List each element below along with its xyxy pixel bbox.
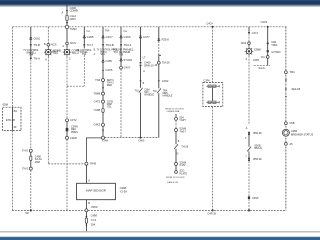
- svg-text:FROM 15 1V DOOR: FROM 15 1V DOOR: [166, 177, 185, 179]
- connector C4D8: [66, 136, 69, 139]
- wire down to resistor box: [212, 27, 214, 83]
- module box dashed: [3, 107, 21, 130]
- connector C465: [83, 35, 85, 38]
- svg-text:C4K2: C4K2: [93, 123, 100, 127]
- svg-text:C477: C477: [143, 35, 150, 39]
- svg-text:RED: RED: [107, 84, 112, 87]
- svg-text:YGP7: YGP7: [179, 119, 186, 122]
- connector C471: [248, 32, 250, 34]
- connector TM-26: [157, 61, 160, 64]
- wire: [140, 66, 142, 80]
- inline fuse 30A: [85, 218, 87, 223]
- connector C200: [66, 10, 68, 12]
- wire with arrow: [102, 126, 104, 136]
- connector C4T5: [102, 100, 105, 103]
- svg-text:TN4-B: TN4-B: [106, 43, 114, 47]
- wire: [66, 122, 68, 137]
- svg-text:YC88: YC88: [93, 108, 100, 112]
- svg-text:ORN: ORN: [70, 17, 76, 21]
- wire to bottom bus: [30, 170, 32, 210]
- wire below module: [12, 131, 14, 211]
- inline connector block: [248, 196, 250, 199]
- svg-text:LT: LT: [143, 57, 146, 60]
- svg-text:MAP SENSOR: MAP SENSOR: [86, 189, 107, 193]
- connector TN4B: [102, 92, 105, 95]
- resistor module box dashed: [203, 83, 223, 107]
- junction dot bottom: [212, 209, 214, 211]
- tap stub: [159, 54, 161, 57]
- wire: [175, 132, 177, 145]
- svg-text:SE2-1B: SE2-1B: [292, 88, 301, 91]
- module internal wire: [12, 107, 14, 130]
- svg-text:TN3-4: TN3-4: [124, 43, 132, 47]
- wire down to branch: [83, 38, 85, 44]
- splice dots on right column: [285, 79, 287, 81]
- wire: [102, 103, 104, 108]
- connector YR45: [85, 162, 88, 165]
- connector S04: [175, 117, 178, 120]
- svg-text:D: D: [177, 153, 179, 156]
- wire: [102, 71, 104, 79]
- wire down to corner: [47, 57, 49, 164]
- connector STUD4: [120, 58, 122, 61]
- wire column I/P: [120, 27, 122, 36]
- svg-text:C4D8: C4D8: [70, 136, 77, 140]
- svg-text:M32: M32: [241, 41, 247, 45]
- svg-text:C4C4: C4C4: [206, 22, 213, 25]
- wire: [158, 41, 160, 54]
- wire: [30, 152, 32, 167]
- svg-text:YR60: YR60: [91, 205, 98, 209]
- wire: [102, 38, 104, 44]
- wire: [102, 62, 104, 69]
- wire: [248, 135, 250, 146]
- svg-text:C4X7: C4X7: [124, 66, 131, 70]
- jog wire left then down: [86, 138, 101, 162]
- svg-text:C498: C498: [120, 186, 127, 190]
- wire: [267, 52, 269, 55]
- connector M32: [248, 42, 251, 45]
- connector C4T2: [66, 119, 69, 122]
- svg-text:CURELE 5MA: CURELE 5MA: [166, 110, 179, 113]
- splice C4C5: [102, 69, 104, 71]
- connector C4K2: [102, 123, 105, 126]
- wire down: [248, 56, 250, 125]
- svg-text:MAP: MAP: [35, 161, 41, 164]
- svg-text:C4R-35: C4R-35: [207, 213, 216, 216]
- svg-text:TM23: TM23: [70, 27, 77, 31]
- wire down: [248, 161, 250, 196]
- wire below MAP: [85, 200, 87, 209]
- connector C4X7: [120, 66, 123, 69]
- svg-text:CN: CN: [261, 56, 265, 59]
- svg-text:YEL: YEL: [107, 106, 112, 109]
- top dashed bus wire: [13, 26, 66, 28]
- junction dot left: [30, 209, 32, 211]
- circuit breaker double circle: [282, 129, 289, 136]
- svg-text:A5: A5: [289, 142, 293, 146]
- lamp bulb dome: [245, 47, 254, 56]
- inline resistor block: [66, 128, 69, 131]
- connector TN-5 lower: [29, 167, 32, 170]
- wire: [158, 64, 160, 80]
- junction dot: [140, 137, 142, 139]
- svg-text:C498: C498: [91, 214, 98, 218]
- wire to switch: [140, 82, 142, 88]
- junction splice to branch: [66, 86, 68, 119]
- wire column lamp 1: [47, 27, 49, 44]
- wire to branch: [267, 58, 269, 65]
- svg-text:PRES: PRES: [71, 131, 78, 134]
- node TM23 on bus: [65, 25, 68, 28]
- svg-text:TN4: TN4: [95, 78, 101, 82]
- wire to collector corner: [158, 93, 160, 137]
- wire main column: [66, 29, 68, 42]
- inline block C2TN2C: [267, 50, 269, 52]
- svg-text:C4C5: C4C5: [106, 68, 113, 72]
- svg-text:4F: 4F: [14, 125, 17, 129]
- svg-text:ETR-1B: ETR-1B: [6, 119, 15, 122]
- svg-text:PLATE: PLATE: [179, 172, 187, 175]
- connector TM4: [285, 71, 288, 74]
- wire to switch 2: [158, 82, 160, 89]
- wire main feed from top: [66, 5, 68, 26]
- svg-text:BREAKER STATUS: BREAKER STATUS: [291, 134, 313, 137]
- splice TN3-4: [120, 44, 122, 46]
- svg-text:C4K5: C4K5: [138, 140, 145, 143]
- wire down to bottom bus: [212, 107, 214, 211]
- svg-text:SunG: SunG: [258, 67, 264, 70]
- svg-text:EAGLE OM: EAGLE OM: [167, 181, 178, 184]
- connector NCS 2: [66, 42, 69, 45]
- svg-text:C452: C452: [162, 79, 169, 83]
- wire down: [30, 40, 32, 44]
- svg-text:C601: C601: [33, 36, 40, 40]
- svg-text:C2TN2C: C2TN2C: [271, 51, 281, 54]
- svg-text:TN-7: TN-7: [87, 43, 94, 47]
- svg-text:TIL/: TIL/: [153, 90, 158, 93]
- svg-text:TN-5: TN-5: [22, 167, 28, 171]
- dashed jumper wire to MAP drop: [48, 163, 85, 165]
- connector C601: [30, 37, 32, 40]
- svg-text:B50-3c: B50-3c: [254, 147, 263, 150]
- wire to bottom bus: [248, 199, 250, 210]
- inline fuse YC88: [102, 108, 104, 112]
- svg-text:NE-1: NE-1: [53, 50, 59, 53]
- lamp bulb comb: [44, 48, 53, 57]
- wire down: [66, 57, 68, 87]
- svg-text:NCS: NCS: [51, 43, 57, 47]
- svg-text:A: A: [61, 10, 63, 14]
- svg-text:DRN-10: DRN-10: [144, 63, 154, 67]
- svg-text:C4K5: C4K5: [124, 35, 131, 39]
- connector pair B50 lower: [248, 151, 250, 157]
- wire column heater sw: [140, 27, 142, 36]
- splice C2R: [267, 42, 269, 44]
- MAP sensor box: [77, 183, 116, 199]
- svg-text:TN4: TN4: [105, 30, 110, 33]
- wire stub from bus: [248, 27, 250, 32]
- wire column to module: [12, 27, 14, 107]
- svg-text:Y2-3A: Y2-3A: [120, 189, 128, 193]
- splice TN-7: [83, 44, 85, 46]
- wire: [248, 34, 250, 42]
- junction splice: [140, 80, 142, 82]
- connector C4C7: [102, 35, 104, 38]
- switch blade: [247, 147, 251, 152]
- wire column AC mode: [102, 27, 104, 36]
- svg-text:NCS: NCS: [70, 41, 76, 45]
- svg-text:SDM: SDM: [2, 103, 8, 107]
- connector R25-8: [158, 38, 160, 41]
- wire with pin ticks: [102, 82, 104, 93]
- wire: [267, 45, 269, 51]
- resistor element upper: [206, 85, 219, 87]
- wire: [120, 38, 122, 44]
- connector A5: [285, 143, 288, 146]
- wire: [102, 95, 104, 100]
- wire column mix sw: [158, 27, 160, 38]
- connector Y24A: [102, 136, 105, 139]
- junction dot: [248, 209, 250, 211]
- svg-text:C4C9: C4C9: [261, 21, 268, 24]
- svg-text:YR45: YR45: [89, 162, 96, 166]
- bottom dashed bus wire: [12, 209, 85, 211]
- inline fuse symbol: [30, 156, 32, 161]
- module internal wire: [212, 87, 214, 101]
- svg-text:B: B: [44, 42, 46, 46]
- wire: [102, 112, 104, 123]
- wire down: [267, 27, 269, 42]
- wire column C465: [83, 27, 85, 36]
- connector C477: [139, 35, 141, 38]
- svg-text:TM-26: TM-26: [162, 61, 170, 65]
- wire to collector: [120, 69, 122, 138]
- splice TN-B: [30, 44, 32, 46]
- svg-text:TM4: TM4: [289, 70, 295, 74]
- svg-text:TH-26: TH-26: [181, 146, 189, 149]
- svg-text:30A: 30A: [91, 223, 96, 227]
- svg-text:C2P4: C2P4: [203, 79, 210, 82]
- wire: [140, 38, 142, 61]
- bottom banner bar: [0, 237, 320, 240]
- svg-text:TN-5: TN-5: [22, 149, 28, 153]
- svg-text:C4C7: C4C7: [106, 35, 114, 39]
- svg-text:B4: B4: [14, 109, 18, 113]
- wire into MAP sensor: [85, 165, 87, 183]
- fuse C1L2: [66, 15, 68, 21]
- svg-text:C5M8: C5M8: [254, 48, 261, 52]
- splice TN-A: [30, 57, 32, 59]
- connector S2G PLATE: [175, 171, 178, 174]
- svg-text:TIL/: TIL/: [134, 89, 139, 92]
- svg-text:TO IN BAR: TO IN BAR: [113, 50, 130, 54]
- switch blade TIL: [139, 88, 143, 93]
- switch blade TIL 2: [157, 88, 161, 93]
- wire: [175, 165, 177, 170]
- svg-text:TNNL: TNNL: [271, 44, 278, 47]
- svg-text:Y2-3: Y2-3: [91, 218, 97, 222]
- dashed collector wire: [105, 137, 159, 139]
- splice C452: [158, 80, 160, 82]
- svg-text:COMB: COMB: [70, 9, 78, 13]
- node on bottom bus: [85, 209, 88, 212]
- switch blade TH-26: [174, 144, 178, 149]
- svg-text:C4N5: C4N5: [252, 197, 259, 200]
- branch dashed wire: [254, 64, 270, 66]
- connector C4K5 top: [120, 35, 122, 38]
- svg-text:C2B4: C2B4: [291, 130, 298, 133]
- connector pair B50 upper: [248, 132, 250, 134]
- wire: [175, 149, 177, 163]
- svg-text:STUD4: STUD4: [124, 58, 133, 62]
- connector C465 HE: [102, 59, 104, 62]
- splice TN4-B: [102, 44, 104, 46]
- svg-text:B50-3b: B50-3b: [253, 157, 262, 161]
- svg-text:C6B: C6B: [289, 121, 294, 125]
- connector NCS: [47, 44, 50, 47]
- wire right dashed column: [285, 27, 287, 211]
- svg-text:B50-3b: B50-3b: [253, 131, 262, 135]
- resistor element lower: [206, 101, 219, 103]
- svg-text:C471: C471: [252, 31, 259, 35]
- wire: [248, 45, 250, 47]
- junction dot on bus: [267, 26, 269, 28]
- svg-text:Y24A: Y24A: [102, 139, 109, 143]
- svg-text:TH0-7: TH0-7: [179, 130, 187, 133]
- svg-text:HANDLE: HANDLE: [163, 94, 173, 97]
- svg-text:A: A: [45, 57, 47, 61]
- splice dot: [66, 22, 68, 24]
- wire: [120, 61, 122, 66]
- junction dot on bus: [212, 26, 214, 28]
- connector S2MA upper: [175, 129, 178, 132]
- connector TN-5 upper: [29, 149, 32, 152]
- svg-text:C465: C465: [87, 35, 94, 39]
- bottom separator gray line: [0, 231, 320, 233]
- wire: [175, 114, 177, 117]
- svg-text:C: C: [69, 57, 71, 61]
- svg-text:A: A: [62, 44, 64, 48]
- svg-text:TN4B: TN4B: [93, 92, 100, 96]
- svg-text:C4T5: C4T5: [94, 100, 101, 104]
- connector S2MA C4T2: [175, 162, 178, 165]
- branch dashed wire to C465 column: [67, 85, 84, 87]
- svg-text:TN-A: TN-A: [33, 56, 40, 60]
- svg-text:HANDLE: HANDLE: [144, 93, 154, 96]
- svg-text:C4T2: C4T2: [70, 118, 77, 122]
- svg-text:TN-B: TN-B: [33, 43, 40, 47]
- svg-text:C4T2: C4T2: [179, 164, 186, 167]
- lamp bulb comb trail: [63, 48, 72, 57]
- svg-text:C465: C465: [106, 59, 113, 63]
- connector TN4 upper: [102, 79, 105, 82]
- wire to collector: [140, 93, 142, 138]
- wire to bottom bus: [66, 139, 68, 210]
- wire: [66, 45, 68, 48]
- connector pair C460: [140, 62, 142, 64]
- svg-text:C4P5: C4P5: [253, 59, 260, 62]
- wire: [47, 46, 49, 48]
- wire column TN: [30, 27, 32, 37]
- connector CN: [266, 56, 269, 59]
- svg-text:R25-8: R25-8: [162, 38, 170, 42]
- connector C6B: [285, 122, 288, 125]
- wire to ground: [85, 212, 87, 231]
